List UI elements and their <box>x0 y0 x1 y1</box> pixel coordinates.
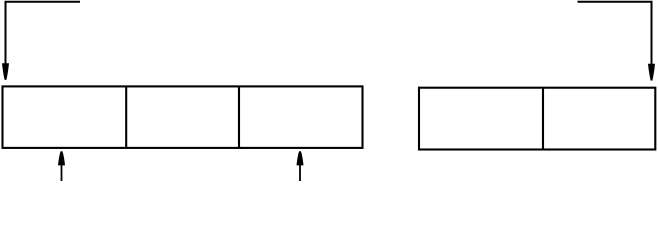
left block outline (3 cells) <box>3 86 363 147</box>
wire: bottom-left up pointer shaft <box>61 165 63 181</box>
arrowhead pointing up at left block cell 1 <box>58 151 65 165</box>
left block divider 1 <box>125 86 127 147</box>
right block divider <box>542 88 544 150</box>
wire: top-right L-shaped lead into right block <box>578 2 652 65</box>
arrowhead pointing down into right block <box>648 64 655 81</box>
right block outline (2 cells) <box>419 88 655 150</box>
wire: top-left L-shaped lead into left block <box>6 2 81 65</box>
arrowhead pointing up at left block cell 3 <box>297 151 304 165</box>
left block divider 2 <box>238 86 240 147</box>
arrowhead pointing down into left block <box>2 63 9 80</box>
wire: bottom-middle up pointer shaft <box>299 165 301 181</box>
